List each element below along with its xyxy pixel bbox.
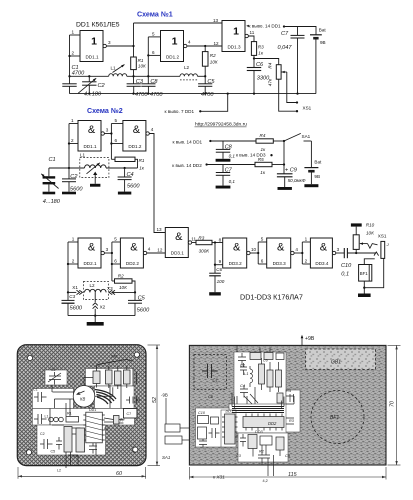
svg-text:SA1: SA1 — [111, 355, 118, 359]
component area left board — [32, 369, 136, 456]
wire R4 wiper to XS1 — [287, 72, 297, 103]
buzzer BF1 — [364, 259, 374, 265]
wire R1 to top rail — [133, 23, 135, 46]
svg-text:L1: L1 — [80, 152, 86, 157]
wire oscillator node horizontal — [70, 75, 109, 77]
svg-text:C6: C6 — [263, 359, 268, 363]
svg-text:R4: R4 — [260, 133, 266, 138]
inductor L2 tap X2 — [93, 303, 98, 309]
nand-gate DD3.4 — [310, 238, 332, 268]
wire inputs vertical DD3.4 — [301, 242, 303, 264]
svg-text:9В: 9В — [314, 174, 320, 179]
capacitor C6 3300 — [253, 59, 255, 68]
pin 4 wire down to DD3.1 — [149, 134, 165, 233]
svg-text:C8: C8 — [225, 144, 233, 150]
svg-text:SA1: SA1 — [302, 134, 311, 139]
svg-text:70: 70 — [390, 401, 396, 407]
svg-text:4700: 4700 — [135, 92, 148, 98]
pin 2 wire DD3.4 — [302, 263, 310, 265]
resistor R4 1к (схема 2) — [256, 139, 273, 143]
svg-text:BF1: BF1 — [360, 271, 368, 276]
nand-gate DD1.2 (схема 2) — [123, 121, 146, 152]
switch SA1 — [284, 133, 301, 141]
resistor R3 300К — [196, 240, 212, 244]
svg-text:C1: C1 — [213, 378, 218, 383]
capacitor C5 5600 (схема 2) — [134, 292, 136, 300]
svg-text:C10: C10 — [198, 411, 206, 415]
ground (схема 2 oscillator) — [94, 316, 96, 322]
node X1 — [67, 291, 69, 293]
svg-text:L1: L1 — [244, 371, 248, 376]
svg-text:C5: C5 — [207, 79, 215, 85]
svg-text:к выв. 14 DD2: к выв. 14 DD2 — [172, 163, 202, 168]
pin 4 wire to pin 12 — [147, 252, 166, 254]
pin 1 wire — [68, 241, 78, 243]
svg-text:R10: R10 — [366, 223, 375, 228]
pin 1 wire — [69, 123, 78, 125]
svg-text:6: 6 — [114, 259, 117, 264]
svg-text:DD1-DD3 К176ЛА7: DD1-DD3 К176ЛА7 — [240, 292, 303, 301]
pcb parts left board — [34, 360, 140, 469]
svg-text:60: 60 — [116, 471, 122, 477]
resistor R10 10К trimmer — [355, 252, 357, 254]
svg-text:C3: C3 — [69, 294, 75, 299]
svg-text:4: 4 — [151, 127, 154, 132]
svg-text:1к: 1к — [261, 147, 267, 152]
svg-text:C2: C2 — [70, 174, 78, 180]
svg-text:DD2: DD2 — [268, 421, 277, 426]
wire +9В — [301, 337, 303, 346]
svg-text:C8: C8 — [150, 79, 158, 85]
svg-text:6: 6 — [152, 50, 155, 55]
pin 6 wire — [112, 263, 121, 265]
resistor R3 1к — [251, 42, 256, 56]
svg-text:13: 13 — [213, 18, 219, 23]
pin 2 wire — [68, 263, 78, 265]
svg-text:1: 1 — [233, 26, 239, 38]
wire X3 to C5 node — [112, 291, 135, 293]
svg-text:11: 11 — [250, 30, 255, 35]
svg-text:1к: 1к — [258, 51, 264, 56]
svg-text:R1: R1 — [139, 158, 145, 163]
inductor L2 (схема 2) — [83, 282, 108, 300]
svg-text:0,1: 0,1 — [229, 154, 236, 159]
svg-text:5: 5 — [115, 118, 118, 123]
inductor L1 (схема 2) — [80, 158, 109, 178]
svg-text:1к: 1к — [260, 170, 266, 175]
wire R3 to DD3.2 — [212, 242, 223, 244]
power bar + — [351, 223, 362, 226]
svg-text:5600: 5600 — [137, 308, 150, 314]
op-gate DD1.1 — [80, 31, 103, 62]
svg-text:R1: R1 — [138, 58, 144, 63]
capacitor C6 100 (схема 2) — [209, 272, 221, 274]
svg-text:C7: C7 — [281, 31, 289, 37]
svg-text:X3: X3 — [107, 286, 113, 291]
capacitor C10 0,1 — [343, 248, 345, 258]
svg-text:DD1.3: DD1.3 — [227, 44, 240, 49]
pin 4 wire DD3.3 — [294, 252, 302, 254]
svg-text:C2: C2 — [240, 363, 246, 368]
svg-text:C1: C1 — [49, 157, 56, 163]
op-gate DD1.2 — [161, 31, 184, 62]
svg-text:L2: L2 — [184, 65, 190, 70]
svg-text:2: 2 — [71, 138, 74, 143]
resistor R4 47к trimmer — [276, 65, 281, 80]
svg-text:9В: 9В — [320, 40, 326, 45]
svg-text:3: 3 — [106, 247, 109, 252]
svg-text:3: 3 — [108, 40, 111, 45]
svg-text:5600: 5600 — [70, 306, 83, 312]
svg-text:115: 115 — [288, 472, 298, 478]
pin 3 wire — [104, 252, 112, 254]
pin 3 wire — [104, 133, 111, 135]
pin 2 wire — [70, 55, 81, 57]
svg-text:300К: 300К — [199, 249, 210, 254]
wire inputs vertical DD3.3 — [257, 242, 259, 264]
pin 1 wire DD3.4 — [302, 241, 310, 243]
pin 6 wire — [148, 54, 160, 56]
nand-gate DD3.3 — [267, 238, 291, 268]
svg-text:4: 4 — [148, 247, 151, 252]
svg-text:4700: 4700 — [201, 92, 214, 98]
svg-text:&: & — [88, 124, 96, 136]
svg-text:1: 1 — [91, 36, 97, 48]
svg-text:к выв. 14 DD1: к выв. 14 DD1 — [173, 139, 203, 144]
svg-text:DD1.2: DD1.2 — [166, 54, 179, 59]
svg-text:8: 8 — [219, 237, 222, 242]
svg-text:к выво. 7 DD1: к выво. 7 DD1 — [165, 109, 195, 114]
svg-text:XS1: XS1 — [303, 106, 312, 111]
pin 11 wire — [248, 36, 254, 42]
svg-text:C10: C10 — [341, 263, 352, 269]
svg-text:4700: 4700 — [150, 92, 163, 98]
svg-text:BF1: BF1 — [330, 415, 339, 421]
op-gate DD1.3 — [222, 21, 245, 52]
svg-text:C4: C4 — [73, 455, 78, 459]
wire BF1 to XS1 sleeve — [363, 281, 365, 288]
wire R4 bottom to XS1 — [279, 79, 297, 111]
svg-text:&: & — [133, 124, 141, 136]
svg-text:3: 3 — [106, 128, 109, 133]
svg-text:R2: R2 — [118, 273, 124, 278]
wire R3 to R4 — [253, 57, 255, 59]
svg-text:GB1: GB1 — [331, 360, 341, 366]
battery Bat 9В (схема 2) — [310, 141, 312, 168]
pcb board right — [189, 345, 386, 465]
svg-text:L1: L1 — [45, 415, 49, 419]
svg-text:3: 3 — [337, 247, 340, 252]
svg-text:12: 12 — [214, 41, 220, 46]
svg-text:0,1: 0,1 — [341, 272, 349, 278]
svg-text:5: 5 — [261, 237, 264, 242]
dimension 52 — [148, 344, 161, 346]
svg-text:L1: L1 — [111, 65, 117, 70]
dimension 70 — [388, 344, 401, 346]
svg-text:6: 6 — [115, 138, 118, 143]
svg-text:SA1: SA1 — [162, 455, 171, 460]
svg-text:1к: 1к — [139, 166, 145, 171]
svg-text:12: 12 — [157, 247, 163, 252]
svg-text:2: 2 — [72, 259, 75, 264]
svg-text:2: 2 — [305, 259, 308, 264]
wire supply line DD1 — [209, 140, 211, 142]
nand-gate DD3.2 — [223, 238, 247, 268]
svg-text:4: 4 — [295, 247, 298, 252]
capacitor C1 — [68, 75, 70, 77]
battery GB1 outline — [305, 349, 375, 369]
svg-text:DD1.2: DD1.2 — [128, 144, 141, 149]
pin 4 wire to pin 12 — [187, 45, 222, 47]
svg-text:R2: R2 — [210, 53, 216, 58]
svg-text:C7: C7 — [225, 168, 233, 174]
connector XS1 (схема 2) — [381, 241, 385, 258]
capacitor C1 on board — [194, 355, 226, 390]
svg-text:4: 4 — [188, 40, 191, 45]
capacitor C5 — [204, 75, 206, 77]
svg-text:DD1 К561ЛЕ5: DD1 К561ЛЕ5 — [76, 22, 120, 29]
svg-text:C5: C5 — [51, 450, 56, 454]
svg-text:R3: R3 — [198, 236, 204, 241]
pin 5 wire — [112, 241, 121, 243]
svg-text:10К: 10К — [210, 59, 218, 64]
svg-text:1: 1 — [72, 237, 75, 242]
svg-text:10К: 10К — [366, 230, 374, 235]
svg-text:C7: C7 — [127, 412, 132, 416]
svg-text:6: 6 — [261, 259, 264, 264]
pin 9 wire — [215, 264, 223, 266]
mounting holes — [27, 355, 32, 360]
svg-text:DD1: DD1 — [226, 410, 234, 414]
nand-gate DD1.1 (схема 2) — [78, 121, 101, 152]
pin 2 wire — [69, 143, 78, 145]
capacitor C3 — [133, 76, 135, 84]
svg-text:10К: 10К — [138, 64, 146, 69]
svg-text:C6: C6 — [216, 267, 222, 272]
svg-text:Схема №1: Схема №1 — [137, 10, 173, 18]
svg-text:&: & — [130, 242, 138, 254]
svg-text:4...180: 4...180 — [43, 199, 61, 205]
svg-text:1: 1 — [305, 237, 308, 242]
capacitor C4 5600 (схема 2) — [124, 168, 126, 177]
svg-text:C1: C1 — [33, 388, 38, 392]
svg-text:DD3.3: DD3.3 — [273, 261, 286, 266]
svg-text:+9В: +9В — [305, 336, 315, 342]
svg-text:DD3: DD3 — [255, 430, 263, 434]
svg-text:0,1: 0,1 — [229, 179, 236, 184]
svg-text:R5: R5 — [258, 157, 264, 162]
buzzer BF1 outline — [311, 391, 364, 444]
svg-text:10К: 10К — [119, 285, 127, 290]
svg-text:Bat: Bat — [314, 159, 322, 164]
svg-text:Bat: Bat — [319, 27, 327, 32]
svg-text:DD1.1: DD1.1 — [85, 54, 98, 59]
inductor L1 — [109, 74, 127, 77]
svg-text:0,047: 0,047 — [278, 45, 293, 51]
capacitor C8 0,1 — [222, 141, 224, 149]
capacitor C7 0,047 — [297, 27, 299, 36]
svg-text:47к: 47к — [267, 78, 272, 86]
capacitor C2 variable — [88, 75, 90, 77]
pcb parts right board — [198, 346, 295, 477]
wire right vertical to C9 — [283, 141, 285, 174]
pin 5 wire DD3.3 — [258, 241, 267, 243]
capacitor C8 — [147, 75, 149, 77]
svg-text:100: 100 — [217, 279, 225, 284]
component area right board — [196, 352, 301, 462]
pin 11 wire — [192, 242, 196, 244]
svg-text:13: 13 — [157, 227, 163, 232]
svg-text:к выво. 14 DD1: к выво. 14 DD1 — [249, 24, 282, 29]
capacitor C7 0,1 (схема 2) — [222, 165, 224, 173]
svg-text:DD1.1: DD1.1 — [83, 144, 96, 149]
wire inputs 5-6 vertical — [110, 124, 112, 160]
svg-text:C2: C2 — [98, 83, 106, 89]
svg-text:X2: X2 — [100, 305, 106, 310]
svg-text:C4: C4 — [240, 383, 246, 388]
svg-text:R4: R4 — [286, 388, 292, 393]
resistor R2 10К — [204, 45, 206, 47]
battery Bat 9В (схема 1) — [310, 34, 322, 36]
svg-text:C2: C2 — [40, 432, 45, 436]
wire inputs 8-9 vertical — [214, 243, 216, 274]
svg-text:R4: R4 — [267, 62, 272, 68]
capacitor C3 5600 (схема 2) — [67, 292, 69, 300]
wire positive rail to battery — [283, 25, 285, 27]
svg-text:4700: 4700 — [72, 71, 85, 77]
wiper R10 to jack — [360, 243, 368, 245]
svg-text:9: 9 — [219, 259, 222, 264]
svg-text:L2: L2 — [57, 469, 61, 473]
pin 6 wire DD3.3 — [258, 263, 267, 265]
svg-text:52: 52 — [152, 397, 158, 403]
jack lower contact — [374, 252, 379, 256]
wire ground rail схема 1 — [70, 93, 316, 95]
svg-text:XS1: XS1 — [378, 234, 387, 239]
wire L1 to C4 node — [106, 167, 138, 169]
pin 10 wire — [250, 252, 258, 254]
wire input vertical DD2.1 — [67, 242, 69, 292]
svg-text:1: 1 — [172, 36, 178, 48]
resistor R2 10К (схема 2) — [112, 280, 115, 282]
svg-text:&: & — [175, 231, 183, 243]
wire R5 to C9 — [272, 164, 284, 166]
pin 1 wire — [70, 34, 81, 36]
svg-text:&: & — [277, 242, 285, 254]
resistor R1 10К — [132, 75, 134, 77]
ground BF1 — [363, 288, 365, 294]
svg-text:50,0мкФ: 50,0мкФ — [288, 178, 306, 183]
inductor L2 — [180, 74, 197, 77]
nand-gate DD3.1 — [165, 228, 188, 258]
wire top rail to pin 13 DD1 — [134, 22, 223, 24]
svg-text:C4: C4 — [127, 172, 134, 178]
pin 5 wire — [111, 123, 123, 125]
pin 5 wire — [148, 36, 160, 38]
svg-text:C5: C5 — [138, 295, 146, 301]
svg-text:КВ: КВ — [80, 397, 85, 402]
svg-text:X1: X1 — [72, 285, 78, 290]
wire oscillator bottom — [68, 315, 135, 317]
svg-text:L2: L2 — [90, 283, 96, 288]
wire R4 to SA1 — [273, 140, 284, 142]
svg-text:C2: C2 — [51, 368, 56, 372]
svg-text:C9: C9 — [290, 168, 297, 174]
svg-text:DD3.2: DD3.2 — [229, 261, 242, 266]
svg-text:DD1: DD1 — [89, 408, 96, 412]
svg-text:5600: 5600 — [127, 183, 140, 189]
capacitor C2 5600 (схема 2) — [68, 168, 70, 179]
nand-gate DD2.2 — [120, 238, 143, 268]
dimension 60 — [17, 467, 19, 479]
pin 3 wire — [106, 45, 133, 47]
pcb board left — [17, 345, 146, 466]
wire supply line DD2 — [205, 163, 207, 165]
svg-text:4,2: 4,2 — [263, 479, 268, 483]
svg-text:&: & — [320, 242, 328, 254]
svg-text:5: 5 — [114, 237, 117, 242]
svg-text:5600: 5600 — [70, 187, 83, 193]
svg-text:C6: C6 — [256, 62, 264, 68]
wire input vertical DD1.1 — [69, 35, 71, 76]
svg-text:DD3.4: DD3.4 — [315, 261, 328, 266]
svg-text:Схема №2: Схема №2 — [87, 107, 123, 115]
wire input vertical — [68, 124, 70, 169]
svg-text:DD3.1: DD3.1 — [171, 250, 184, 255]
resistor R1 1к (схема 2) — [111, 158, 115, 160]
wire C1 to node — [49, 167, 85, 169]
inductor L1 tap to ground — [93, 172, 97, 175]
svg-text:DD2.2: DD2.2 — [126, 261, 139, 266]
svg-text:&: & — [233, 242, 241, 254]
svg-text:10: 10 — [251, 247, 257, 252]
svg-text:R1: R1 — [67, 412, 72, 416]
dimension 115 — [188, 467, 190, 480]
svg-text:5: 5 — [152, 31, 155, 36]
svg-text:4...180: 4...180 — [84, 91, 102, 97]
svg-text:ДЗ: ДЗ — [120, 418, 125, 422]
pin 3 wire DD3.4 — [336, 252, 345, 254]
resistor R5 1к — [255, 162, 272, 166]
nand-gate DD2.1 — [78, 238, 101, 268]
svg-text:1: 1 — [72, 30, 75, 35]
svg-text:R3: R3 — [258, 45, 264, 50]
switch SA1 external — [165, 424, 180, 432]
pin 6 wire — [111, 143, 123, 145]
svg-text:&: & — [88, 242, 96, 254]
svg-text:DD2.1: DD2.1 — [83, 261, 96, 266]
wire inputs 5-6 vertical DD2.2 — [111, 242, 113, 281]
svg-text:2: 2 — [72, 51, 75, 56]
svg-text:R2: R2 — [104, 427, 109, 431]
svg-text:-9В: -9В — [161, 393, 168, 398]
svg-text:1: 1 — [71, 118, 74, 123]
